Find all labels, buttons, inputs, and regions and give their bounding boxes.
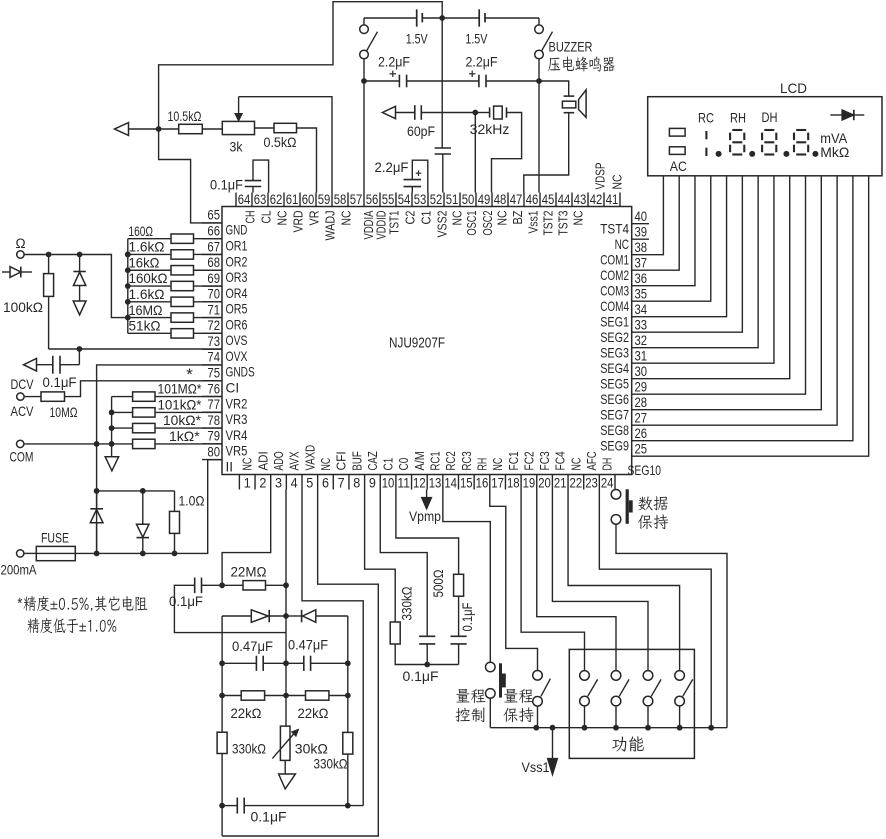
wire data-hold switch to common end [616,524,727,728]
diode (middle, reversed) [137,491,150,554]
wire 2.2uF right to buzzer switch node [486,80,539,82]
svg-text:160Ω: 160Ω [129,223,154,239]
svg-text:10.5kΩ: 10.5kΩ [168,108,202,124]
svg-text:10: 10 [382,476,395,492]
wire pot wiper to pin 59 WADJ [239,97,332,193]
net arrow down (Ω clamp) [73,301,86,315]
node common rail [708,725,714,731]
svg-text:C1: C1 [419,211,434,225]
wire pin 19/20 to function switch [537,490,616,671]
svg-text:COM3: COM3 [600,284,629,299]
svg-text:37: 37 [635,255,648,271]
svg-text:NC: NC [615,237,630,252]
top pin names CH CL NC VRD VR WADJ NC VDDIA VDDID TST1 C2 C1 VSS2 NC OSC1 OSC2 NC BZ Vss1 TST2 TST3 NC [243,210,586,240]
svg-text:30kΩ: 30kΩ [295,741,328,757]
svg-text:TST2: TST2 [541,211,556,236]
svg-text:1kΩ*: 1kΩ* [169,428,200,444]
bottom pin numbers 1-24 [244,476,614,492]
svg-text:DH: DH [762,109,778,125]
resistor 100kΩ [3,255,54,350]
svg-text:RC3: RC3 [459,451,474,470]
svg-text:VR2: VR2 [226,396,248,411]
pin 39 lead stub [632,238,649,240]
svg-text:VR4: VR4 [226,428,248,443]
svg-text:44: 44 [558,192,571,208]
capacitor 0.1μF (OVX) [37,349,80,390]
node COM/VR-bus [109,441,115,447]
capacitor 0.47μF (left) [222,638,286,671]
svg-text:RH: RH [730,110,746,126]
svg-text:CFI: CFI [334,451,349,470]
wire pin 32 SEG3 to LCD [632,176,758,348]
svg-text:58: 58 [334,192,347,208]
label 数据保持 [638,496,668,529]
wire clamp top rail [97,490,175,492]
LCD module box [648,80,882,176]
svg-text:160kΩ: 160kΩ [129,270,168,286]
wire outer loop to pin 5 VAXD [222,490,378,837]
fuse FUSE 200mA [24,530,75,561]
capacitor 0.1μF (ADI) [169,578,286,633]
svg-text:79: 79 [207,429,220,445]
jack 200mA input [1,550,38,578]
wire pin 33 SEG2 to LCD [632,176,743,332]
svg-text:20: 20 [538,476,551,492]
resistor 1kΩ* [133,428,222,449]
net Vpmp arrow [409,490,441,525]
svg-text:60: 60 [302,192,315,208]
svg-text:53: 53 [414,192,427,208]
wire pin 8 BUF to 330k [365,490,396,623]
svg-text:SEG2: SEG2 [600,330,629,345]
svg-text:TST4: TST4 [600,222,629,237]
svg-text:59: 59 [318,192,331,208]
node 22k left [219,693,225,699]
capacitor 0.1μF (bottom) [222,798,363,825]
svg-text:77: 77 [207,397,220,413]
wire OVX net (100k to pin 73) [49,348,222,350]
svg-text:61: 61 [286,192,299,208]
svg-text:OVS: OVS [226,333,248,348]
wire pin 9 CAZ to 0.1uF [380,490,427,637]
svg-text:SEG5: SEG5 [600,377,629,392]
switch 功能 4 [675,671,693,728]
wire fuse to pin 80 II [75,460,222,554]
svg-text:VR5: VR5 [226,444,248,459]
resistor 22kΩ (right) [286,691,348,721]
svg-text:25: 25 [635,441,648,457]
node fuse/diode2 [140,551,146,557]
node common rail [613,725,619,731]
svg-text:330kΩ: 330kΩ [232,741,266,757]
svg-text:38: 38 [635,240,648,256]
LCD label MkΩ [820,144,849,160]
svg-text:14: 14 [444,476,457,492]
svg-text:35: 35 [635,286,648,302]
svg-text:NC: NC [495,210,510,225]
LCD decimal point 3 [783,151,789,157]
pin 25 name SEG10 (outside, at chip corner) [628,463,662,478]
right pin numbers 40-25 [635,209,648,458]
svg-text:16kΩ: 16kΩ [129,254,160,270]
node ladder pin 70 [125,299,131,305]
wire pin 35 COM4 to LCD [632,176,711,301]
box 功能 (function) [569,649,694,758]
svg-text:VDSP: VDSP [593,162,608,189]
svg-text:BZ: BZ [510,211,525,225]
wire COM to pin 79 VR5 [24,443,133,445]
svg-text:36: 36 [635,271,648,287]
svg-text:SEG10: SEG10 [628,463,662,478]
svg-text:SEG4: SEG4 [600,361,629,376]
wire junction down to GND pin 65 [159,129,222,223]
svg-text:DCV: DCV [11,376,35,392]
node fuse/1.0Ω [172,551,178,557]
node diode pair [283,613,289,619]
svg-text:NC: NC [450,210,465,225]
LCD decimal point 4 [812,151,818,157]
svg-text:101kΩ*: 101kΩ* [158,396,203,412]
wire pin 18/19 to function switch [521,490,584,671]
svg-text:OR1: OR1 [226,238,248,253]
bottom pin number separators (pins 1-24) [239,475,615,490]
resistor 101MΩ* [112,381,222,402]
svg-text:10MΩ: 10MΩ [50,404,78,420]
resistor 16kΩ (OR ladder pin 68) [128,254,222,275]
svg-text:Vpmp: Vpmp [409,508,441,524]
svg-text:56: 56 [366,192,379,208]
LCD label RC [698,110,714,126]
svg-text:ADI: ADI [255,451,270,470]
resistor 10.5kΩ [159,108,223,134]
node COM/GNDS [94,441,100,447]
net arrow down (30k wiper gnd) [279,760,296,789]
wire 330k to Vbuf rail [395,644,458,665]
svg-text:AC: AC [670,158,687,174]
LCD digit 8 #1 [730,130,744,155]
resistor 10kΩ* [112,412,222,433]
svg-text:3: 3 [275,476,282,492]
node common rail [677,725,683,731]
svg-text:12: 12 [413,476,426,492]
node 22k mid [283,693,289,699]
svg-text:OVX: OVX [226,349,248,364]
wire crystal to pin 49/48 OSC2 [492,113,522,193]
svg-text:8: 8 [353,476,360,492]
svg-text:22: 22 [570,476,583,492]
resistor 10MΩ [24,392,77,420]
resistor 1.6kΩ (OR ladder pin 67) [128,239,222,260]
resistor 160kΩ (OR ladder pin 69) [128,270,222,291]
svg-text:AVX: AVX [287,451,302,470]
svg-text:1.5V: 1.5V [465,31,487,47]
svg-text:FC3: FC3 [537,451,552,470]
node battery midpoint [439,15,445,21]
svg-text:29: 29 [635,379,648,395]
svg-text:RC1: RC1 [428,451,443,470]
node clamp/diode2 [140,488,146,494]
svg-text:0.1μF: 0.1μF [43,374,77,390]
wire pin 2 ADI down-left [222,490,271,586]
svg-text:22kΩ: 22kΩ [231,705,262,721]
node Ω/100k [46,252,52,258]
svg-text:62: 62 [270,192,283,208]
node 22k right [345,693,351,699]
svg-text:SEG3: SEG3 [600,346,629,361]
wire pin 28 SEG7 to LCD [632,176,822,410]
svg-text:NC: NC [275,210,290,225]
resistor 16MΩ (OR ladder pin 71) [128,302,222,323]
svg-text:51kΩ: 51kΩ [129,318,161,334]
node 0.47 left [219,660,225,666]
wire Ω input to OR ladder bus [24,255,128,318]
svg-text:16: 16 [476,476,489,492]
svg-text:GNDS: GNDS [226,365,255,380]
node common rail [582,725,588,731]
node ladder pin 68 [125,267,131,273]
potentiometer 3k [222,97,254,155]
svg-text:0.47μF: 0.47μF [288,637,328,653]
svg-text:0.1μF: 0.1μF [459,603,475,632]
svg-text:5: 5 [306,476,313,492]
svg-text:NC: NC [339,210,354,225]
LCD digit 1 [705,131,707,156]
wire pin 16/17 to range-hold switch [490,490,538,671]
capacitor 0.1μF (500Ω) [451,596,475,664]
asterisk (pin 75) [186,365,193,384]
diode (right of ADO) [286,610,348,623]
node junction 10.5k/pot/arrow [156,126,162,132]
svg-text:30: 30 [635,364,648,380]
LCD digit 8 #2 [762,130,776,155]
label 量程保持 [504,689,534,722]
LCD decimal point 2 [749,151,755,157]
svg-text:9: 9 [369,476,376,492]
left pin names GND OR1 OR2 OR3 OR4 OR5 OR6 OVS OVX GNDS CI VR2 VR3 VR4 VR5 II [226,223,255,475]
wire pin 21/22 to function switch [568,490,680,671]
svg-text:7: 7 [338,476,345,492]
diode (left of ADO) [222,610,286,623]
svg-text:RC: RC [698,110,714,126]
svg-text:75: 75 [207,366,220,382]
svg-text:55: 55 [382,192,395,208]
LCD label mVA [820,130,848,146]
node ADI/22M [219,582,225,588]
node GNDS mid [94,488,100,494]
capacitor 0.1μF (pins 64/63) [210,160,269,192]
svg-text:OR2: OR2 [226,254,248,269]
svg-text:27: 27 [635,410,648,426]
svg-text:SEG6: SEG6 [600,392,629,407]
capacitor 0.1μF (CAZ) [402,636,438,684]
svg-text:1.6kΩ: 1.6kΩ [129,286,165,302]
node OSC1 [472,110,478,116]
wire bottom cap to pin 4 AVX [302,490,363,806]
resistor 1.0Ω [170,491,205,554]
svg-text:0.1μF: 0.1μF [402,668,438,684]
svg-text:3k: 3k [230,139,244,155]
label BUZZER 压电蜂鸣器 [548,39,614,72]
svg-text:ACV: ACV [11,403,35,419]
svg-text:1: 1 [244,476,251,492]
svg-text:21: 21 [554,476,567,492]
svg-text:BUF: BUF [349,451,364,470]
LCD decimal point 1 [716,151,722,157]
svg-text:II: II [226,459,234,474]
svg-text:CL: CL [259,211,274,224]
net arrow left (OSC) [383,106,396,118]
svg-text:330kΩ: 330kΩ [399,587,415,621]
svg-text:15: 15 [460,476,473,492]
svg-text:2.2μF: 2.2μF [378,54,410,70]
svg-text:28: 28 [635,395,648,411]
svg-text:51: 51 [446,192,459,208]
svg-text:VSS2: VSS2 [435,211,450,238]
svg-text:CH: CH [243,211,258,224]
svg-text:54: 54 [398,192,411,208]
svg-text:13: 13 [429,476,442,492]
switch buzzer right [535,18,553,81]
svg-text:80: 80 [207,444,220,460]
wire speaker to pin 47 [524,113,569,193]
svg-text:46: 46 [526,192,539,208]
node fuse/GNDS [94,551,100,557]
capacitor 2.2μF electrolytic (pins 54/53) [375,159,428,193]
svg-text:COM2: COM2 [600,268,629,283]
svg-text:31: 31 [635,348,648,364]
potentiometer 30kΩ [272,726,327,760]
svg-text:52: 52 [430,192,443,208]
wire 60pF to crystal node [421,112,475,114]
wire left column [221,616,223,836]
svg-text:70: 70 [207,287,220,303]
switch 量程控制 (range control) [486,662,506,728]
svg-text:100kΩ: 100kΩ [3,299,43,315]
svg-text:39: 39 [635,224,648,240]
capacitor 0.47μF (right) [286,637,348,671]
wire VR divider bus [111,397,113,457]
piezo speaker [539,81,586,117]
svg-text:CAZ: CAZ [365,451,380,470]
svg-text:2.2μF: 2.2μF [375,159,409,175]
wire GNDS pin 74 down to COM [97,365,222,554]
svg-text:AFC: AFC [584,451,599,471]
battery 1.5V cell 1 [406,9,428,46]
svg-text:NC: NC [240,457,255,470]
resistor 160Ω (OR ladder pin 66) [128,223,222,243]
note *精度±0.5%,其它电阻 [18,596,148,611]
node common rail [533,725,539,731]
svg-text:17: 17 [491,476,504,492]
wire node to pin 50/49 OSC1 [474,113,476,193]
svg-text:SEG8: SEG8 [600,423,629,438]
svg-text:73: 73 [207,334,220,350]
svg-text:1.5V: 1.5V [406,31,428,47]
node 0.47 mid [283,660,289,666]
svg-text:16MΩ: 16MΩ [129,302,163,318]
switch 功能 2 [611,671,629,728]
svg-text:OR6: OR6 [226,317,248,332]
resistor 330kΩ (left) [217,732,266,756]
note 精度低于±1.0% [27,618,116,633]
svg-text:0.1μF: 0.1μF [210,176,243,192]
svg-text:NC: NC [610,174,625,189]
svg-text:22MΩ: 22MΩ [231,564,267,580]
svg-text:COM4: COM4 [600,299,629,314]
svg-text:1.6kΩ: 1.6kΩ [129,239,165,255]
svg-text:49: 49 [478,192,491,208]
jack Ω input [15,236,25,258]
LCD segment bar 1 [669,128,685,136]
svg-text:SEG7: SEG7 [600,408,629,423]
node OVX/cap [77,346,83,352]
svg-text:19: 19 [523,476,536,492]
switch 功能 3 [643,671,661,728]
svg-text:67: 67 [207,239,220,255]
svg-text:DH: DH [600,458,615,471]
svg-text:65: 65 [207,208,220,224]
svg-text:42: 42 [590,192,603,208]
svg-text:NC: NC [571,210,586,225]
svg-text:48: 48 [494,192,507,208]
svg-text:GND: GND [226,223,248,238]
svg-text:4: 4 [291,476,298,492]
battery 1.5V cell 2 [465,9,487,46]
svg-text:OR3: OR3 [226,270,248,285]
svg-text:Vss1: Vss1 [526,211,541,234]
svg-text:68: 68 [207,255,220,271]
node bus VR4 [109,425,115,431]
wire pin 34 SEG1 to LCD [632,176,727,317]
node 330k right bottom [345,803,351,809]
jack DCV/ACV input [11,376,35,419]
svg-text:FC4: FC4 [553,451,568,470]
wire 0.5k to pin 60 VR [297,128,317,193]
svg-text:11: 11 [397,476,410,492]
svg-text:0.1μF: 0.1μF [169,593,203,609]
resistor 101kΩ* [112,396,222,417]
svg-text:SEG9: SEG9 [600,439,629,454]
node ladder pin 71 [125,315,131,321]
svg-text:OSC2: OSC2 [480,211,495,236]
diode (Ω clamp) [73,255,85,301]
wire pin 23/24 to common [599,490,711,728]
svg-text:47: 47 [510,192,523,208]
svg-text:200mA: 200mA [1,562,38,578]
svg-text:50: 50 [462,192,475,208]
wire pin 29 SEG6 to LCD [632,176,806,394]
wire pin 27 SEG8 to LCD [632,176,837,425]
svg-text:0.47μF: 0.47μF [232,638,273,654]
svg-text:C2: C2 [403,211,418,225]
svg-text:FC1: FC1 [506,451,521,470]
resistor 51kΩ (OR ladder pin 72) [128,318,222,339]
svg-text:64: 64 [238,192,251,208]
svg-text:33: 33 [635,317,648,333]
svg-text:26: 26 [635,426,648,442]
svg-text:74: 74 [207,350,220,366]
pin 40 lead stub [632,223,649,225]
LCD label RH [730,110,746,126]
wire pin 38 COM1 to LCD [632,176,664,255]
svg-text:BUZZER: BUZZER [549,39,593,55]
capacitor (battery mid to pin 52/51) [435,18,451,193]
svg-text:32: 32 [635,333,648,349]
svg-text:330kΩ: 330kΩ [314,756,348,772]
left pin numbers 65-80 [207,208,220,461]
svg-text:71: 71 [207,302,220,318]
net Vss1 arrow [522,728,558,775]
